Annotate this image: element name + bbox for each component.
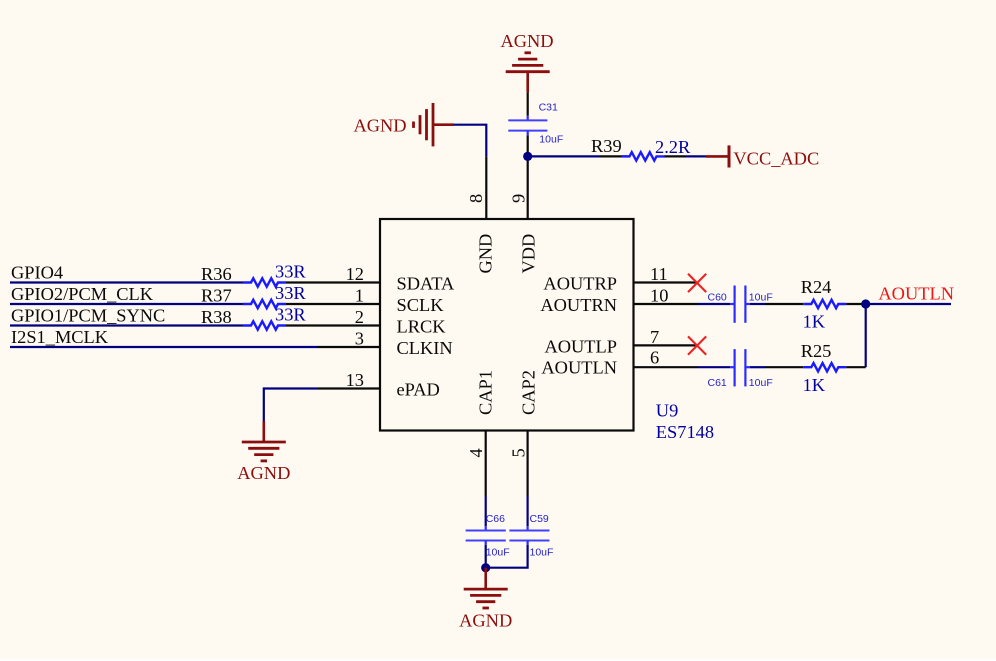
net label GPIO4 bbox=[11, 262, 63, 282]
svg-text:R39: R39 bbox=[591, 136, 622, 156]
svg-text:AGND: AGND bbox=[459, 611, 512, 631]
svg-text:5: 5 bbox=[509, 448, 529, 457]
pin 10 AOUTRN stub bbox=[634, 303, 699, 305]
resistor R38 bbox=[243, 321, 286, 329]
wire R39 left lead bbox=[600, 155, 629, 157]
ground label AGND (top left) bbox=[353, 116, 406, 136]
svg-text:1K: 1K bbox=[803, 312, 826, 332]
wire pin 5 to C59 bbox=[526, 496, 528, 526]
power label VCC_ADC bbox=[733, 149, 819, 169]
pin number 8 bbox=[466, 194, 486, 203]
svg-text:C31: C31 bbox=[539, 102, 558, 114]
part number ES7148 bbox=[656, 422, 714, 442]
pin 2 LRCK stub bbox=[317, 324, 380, 326]
pin name GND bbox=[476, 234, 496, 274]
designator R36 bbox=[201, 264, 232, 284]
svg-text:11: 11 bbox=[650, 264, 668, 284]
value 33R bbox=[275, 305, 306, 325]
net label I2S1_MCLK bbox=[11, 327, 109, 347]
svg-text:1: 1 bbox=[355, 286, 364, 306]
svg-text:10uF: 10uF bbox=[486, 547, 510, 559]
svg-text:R24: R24 bbox=[801, 277, 832, 297]
wire R25 to junction column bbox=[846, 366, 865, 368]
net label AOUTLN bbox=[878, 284, 954, 304]
junction node AOUTLN bbox=[861, 299, 870, 308]
net label GPIO1/PCM_SYNC bbox=[11, 305, 165, 325]
power port VCC_ADC stem bbox=[706, 155, 729, 158]
wire pin 6 to C61 bbox=[698, 366, 730, 368]
pin 3 CLKIN stub bbox=[317, 346, 380, 348]
pin number 11 bbox=[650, 264, 668, 284]
designator R25 bbox=[801, 341, 832, 361]
wire R36 to pin 12 bbox=[286, 281, 317, 283]
svg-text:GPIO1/PCM_SYNC: GPIO1/PCM_SYNC bbox=[11, 305, 165, 325]
wire R39 right lead bbox=[665, 155, 687, 157]
ground AGND (bottom) bbox=[464, 589, 508, 608]
wire pin 4 to C66 bbox=[485, 496, 487, 526]
resistor R25 bbox=[803, 363, 846, 371]
pin number 7 bbox=[650, 327, 659, 347]
pin 9 VDD stub bbox=[527, 135, 529, 219]
svg-text:SDATA: SDATA bbox=[397, 274, 456, 294]
pin name LRCK bbox=[397, 317, 447, 337]
svg-text:I2S1_MCLK: I2S1_MCLK bbox=[11, 327, 109, 347]
pin 1 SCLK stub bbox=[317, 303, 380, 305]
designator R39 bbox=[591, 136, 622, 156]
pin name AOUTRN bbox=[540, 295, 617, 315]
pin number 13 bbox=[346, 370, 364, 390]
svg-text:10: 10 bbox=[650, 286, 668, 306]
svg-text:4: 4 bbox=[466, 448, 486, 457]
svg-text:12: 12 bbox=[346, 264, 364, 284]
svg-text:2: 2 bbox=[355, 307, 364, 327]
svg-text:C60: C60 bbox=[708, 292, 727, 304]
pin number 6 bbox=[650, 348, 659, 368]
svg-text:R36: R36 bbox=[201, 264, 232, 284]
svg-text:10uF: 10uF bbox=[749, 377, 773, 389]
ground AGND (left, rotated) bbox=[414, 103, 434, 146]
pin number 2 bbox=[355, 307, 364, 327]
svg-text:R38: R38 bbox=[201, 307, 232, 327]
pin number 9 bbox=[509, 194, 529, 203]
pin name CAP1 bbox=[476, 370, 496, 415]
ground stem (left AGND) bbox=[433, 123, 454, 126]
pin name AOUTLN bbox=[541, 357, 617, 377]
svg-text:AOUTLN: AOUTLN bbox=[541, 357, 617, 377]
svg-text:C61: C61 bbox=[708, 377, 727, 389]
junction node CAP bbox=[481, 563, 490, 572]
pin name SCLK bbox=[397, 295, 445, 315]
svg-text:8: 8 bbox=[466, 194, 486, 203]
no-connect X pin 11 bbox=[688, 274, 706, 292]
wire AOUTLN net bbox=[866, 303, 951, 305]
capacitor C61 bbox=[730, 349, 750, 386]
svg-text:10uF: 10uF bbox=[539, 134, 563, 146]
pin 6 AOUTLN stub bbox=[634, 366, 699, 368]
value 10uF (C66) bbox=[486, 547, 510, 559]
value 33R bbox=[275, 262, 306, 282]
svg-text:C66: C66 bbox=[486, 513, 505, 525]
svg-text:10uF: 10uF bbox=[749, 292, 773, 304]
wire C61 to R25 bbox=[750, 366, 765, 368]
pin 13 ePAD stub bbox=[317, 387, 380, 389]
value 33R bbox=[275, 283, 306, 303]
resistor R37 bbox=[243, 300, 286, 308]
svg-text:AGND: AGND bbox=[500, 31, 553, 51]
wire pin 10 to C60 bbox=[698, 303, 730, 305]
pin name AOUTLP bbox=[544, 336, 617, 356]
pin number 1 bbox=[355, 286, 364, 306]
svg-text:AOUTLP: AOUTLP bbox=[544, 336, 617, 356]
svg-text:LRCK: LRCK bbox=[397, 317, 447, 337]
wire C59 down and left to junction bbox=[486, 545, 528, 568]
pin name CAP2 bbox=[519, 370, 539, 415]
pin name VDD bbox=[519, 234, 539, 274]
pin name AOUTRP bbox=[543, 274, 617, 294]
capacitor C31 bbox=[508, 116, 547, 136]
pin 4 CAP1 stub bbox=[485, 431, 487, 497]
svg-text:AGND: AGND bbox=[237, 463, 290, 483]
svg-text:AGND: AGND bbox=[353, 116, 406, 136]
value 10uF (C31) bbox=[539, 134, 563, 146]
wire I2S1_MCLK to pin 3 bbox=[10, 346, 317, 348]
ground AGND (pin13) bbox=[242, 442, 286, 461]
wire GPIO4 to R36 bbox=[10, 281, 243, 283]
wire GPIO2 to R37 bbox=[10, 303, 243, 305]
pin 12 SDATA stub bbox=[317, 281, 380, 283]
capacitor C66 bbox=[466, 526, 506, 545]
pin name ePAD bbox=[397, 380, 440, 400]
label C31 bbox=[539, 102, 558, 114]
svg-text:CAP2: CAP2 bbox=[519, 370, 539, 415]
ground label AGND (top C31) bbox=[500, 31, 553, 51]
ground stem (pin13 AGND) bbox=[262, 421, 265, 442]
svg-text:SCLK: SCLK bbox=[397, 295, 445, 315]
svg-text:1K: 1K bbox=[803, 375, 826, 395]
svg-text:VDD: VDD bbox=[519, 234, 539, 274]
wire R38 to pin 2 bbox=[286, 324, 317, 326]
wire R25 left lead bbox=[765, 366, 803, 368]
svg-text:R25: R25 bbox=[801, 341, 832, 361]
ground AGND (top, flipped) bbox=[506, 53, 550, 72]
label C61 bbox=[708, 377, 727, 389]
value 1K (R24) bbox=[803, 312, 826, 332]
pin number 12 bbox=[346, 264, 364, 284]
value 10uF (C59) bbox=[530, 547, 554, 559]
wire junction down bbox=[865, 304, 867, 367]
pin name SDATA bbox=[397, 274, 456, 294]
svg-text:ES7148: ES7148 bbox=[656, 422, 714, 442]
svg-text:AOUTLN: AOUTLN bbox=[878, 284, 954, 304]
wire junction to R39 bbox=[528, 155, 600, 157]
svg-text:AOUTRP: AOUTRP bbox=[543, 274, 617, 294]
value 2.2R bbox=[655, 137, 691, 157]
svg-text:6: 6 bbox=[650, 348, 659, 368]
svg-text:C59: C59 bbox=[530, 513, 549, 525]
designator R24 bbox=[801, 277, 832, 297]
label C59 bbox=[530, 513, 549, 525]
pin 5 CAP2 stub bbox=[526, 431, 528, 497]
svg-text:33R: 33R bbox=[275, 283, 306, 303]
net label GPIO2/PCM_CLK bbox=[11, 284, 154, 304]
designator R37 bbox=[201, 286, 232, 306]
ground label AGND (bottom) bbox=[459, 611, 512, 631]
power port VCC_ADC bar bbox=[728, 145, 731, 167]
resistor R36 bbox=[243, 278, 286, 286]
svg-text:GPIO2/PCM_CLK: GPIO2/PCM_CLK bbox=[11, 284, 154, 304]
value 10uF (C60) bbox=[749, 292, 773, 304]
svg-text:CLKIN: CLKIN bbox=[397, 338, 453, 358]
wire R37 to pin 1 bbox=[286, 303, 317, 305]
svg-text:33R: 33R bbox=[275, 262, 306, 282]
svg-text:2.2R: 2.2R bbox=[655, 137, 691, 157]
pin name CLKIN bbox=[397, 338, 453, 358]
svg-text:13: 13 bbox=[346, 370, 364, 390]
svg-text:ePAD: ePAD bbox=[397, 380, 440, 400]
pin number 4 bbox=[466, 448, 486, 457]
ground label AGND (pin13) bbox=[237, 463, 290, 483]
value 1K (R25) bbox=[803, 375, 826, 395]
wire left AGND to pin 8 bbox=[454, 125, 486, 157]
pin number 5 bbox=[509, 448, 529, 457]
wire AGND to C31 bbox=[527, 92, 529, 115]
wire GPIO1 to R38 bbox=[10, 324, 243, 326]
svg-text:VCC_ADC: VCC_ADC bbox=[733, 149, 819, 169]
label C66 bbox=[486, 513, 505, 525]
svg-text:CAP1: CAP1 bbox=[476, 370, 496, 415]
pin 8 GND stub bbox=[485, 156, 487, 219]
ground stem (top AGND) bbox=[526, 72, 529, 93]
label C60 bbox=[708, 292, 727, 304]
wire R24 to junction bbox=[846, 303, 865, 305]
junction node VDD bbox=[523, 152, 532, 161]
ground stem (bottom AGND) bbox=[484, 568, 487, 589]
svg-text:GND: GND bbox=[476, 234, 496, 274]
wire pin 13 to AGND bbox=[264, 389, 317, 422]
resistor R39 bbox=[622, 152, 665, 160]
wire C66 down to junction bbox=[485, 545, 487, 568]
wire to VCC_ADC bbox=[686, 155, 706, 157]
capacitor C60 bbox=[730, 286, 750, 323]
svg-text:7: 7 bbox=[650, 327, 659, 347]
wire C60 to R24 bbox=[750, 303, 765, 305]
designator U9 bbox=[656, 401, 678, 421]
pin 11 AOUTRP stub bbox=[634, 281, 697, 283]
wire R24 left lead bbox=[765, 303, 803, 305]
svg-text:33R: 33R bbox=[275, 305, 306, 325]
pin number 10 bbox=[650, 286, 668, 306]
capacitor C59 bbox=[509, 526, 549, 545]
svg-text:10uF: 10uF bbox=[530, 547, 554, 559]
IC U9 body outline bbox=[380, 219, 634, 431]
pin 7 AOUTLP stub bbox=[634, 344, 697, 346]
resistor R24 bbox=[803, 300, 846, 308]
svg-text:R37: R37 bbox=[201, 286, 232, 306]
svg-text:U9: U9 bbox=[656, 401, 678, 421]
svg-text:9: 9 bbox=[509, 194, 529, 203]
pin number 3 bbox=[355, 329, 364, 349]
value 10uF (C61) bbox=[749, 377, 773, 389]
svg-text:GPIO4: GPIO4 bbox=[11, 262, 63, 282]
no-connect X pin 7 bbox=[688, 336, 706, 354]
designator R38 bbox=[201, 307, 232, 327]
svg-text:3: 3 bbox=[355, 329, 364, 349]
svg-text:AOUTRN: AOUTRN bbox=[540, 295, 617, 315]
